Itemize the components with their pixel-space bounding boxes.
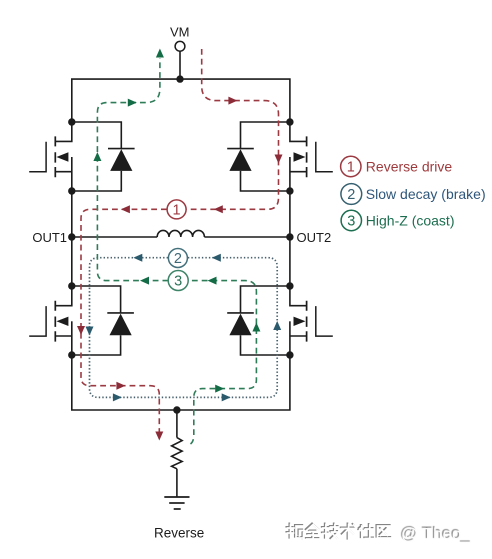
wire bottom rail [72, 355, 290, 410]
transistor Q4 bottom-right MOSFET [290, 286, 333, 355]
arrow green left on line 3 left [140, 277, 149, 285]
arrow blue right bottom right [222, 393, 231, 401]
arrow blue left on line 2 left [133, 254, 142, 262]
wire left edge mid [71, 191, 73, 286]
arrow blue left on line 2 right [212, 254, 221, 262]
legend item 2 circle [341, 184, 362, 205]
path 1 reverse drive (red dashed) [81, 49, 279, 433]
wire VM stub [179, 51, 181, 79]
svg-text:Reverse drive: Reverse drive [366, 158, 453, 174]
arrow green right top [128, 99, 137, 107]
diode D4 body diode of Q4 [227, 286, 290, 355]
wire OUT1-OUT2 line [72, 236, 290, 238]
transistor Q3 bottom-left MOSFET [29, 286, 72, 355]
svg-text:OUT1: OUT1 [32, 230, 67, 245]
resistor Rsense [172, 410, 183, 497]
node label circled 1 [167, 200, 186, 219]
wire top rail [72, 79, 290, 122]
diode D2 body diode of Q2 [227, 122, 290, 191]
node OUT2 [286, 233, 293, 240]
svg-text:OUT2: OUT2 [297, 230, 332, 245]
arrow green up near VM [156, 49, 164, 58]
path 3 high-Z coast (green dashed) [97, 58, 256, 444]
svg-text:3: 3 [347, 214, 355, 230]
transistor Q2 top-right MOSFET [290, 122, 333, 191]
arrow red left on line 1 right [214, 205, 223, 213]
arrow red down in Q3 loop [77, 326, 85, 335]
legend item 3 circle [341, 210, 361, 230]
node Q2 source [286, 187, 293, 194]
inductor motor winding [157, 230, 204, 237]
svg-text:2: 2 [347, 187, 355, 203]
diode D1 body diode of Q1 [72, 122, 135, 191]
arrow green up in Q4 loop [252, 323, 260, 332]
arrow red down at resistor [155, 432, 163, 441]
node label circled 2 [168, 249, 187, 268]
ground [164, 497, 189, 509]
diode D3 body diode of Q3 [72, 286, 134, 355]
svg-text:1: 1 [173, 203, 181, 219]
arrow red right top [228, 97, 237, 105]
arrow red down in Q2 loop [275, 155, 283, 164]
wire right edge mid [289, 191, 291, 286]
node Q4 source [286, 351, 293, 358]
node VM junction [176, 75, 183, 82]
arrow blue right bottom left [113, 393, 122, 401]
arrow green left on line 3 right [208, 277, 217, 285]
node Q3 source [68, 351, 75, 358]
node sense [173, 406, 180, 413]
arrow blue down in Q3 loop [86, 327, 94, 336]
arrow red right bottom [116, 382, 125, 390]
node label circled 3 [168, 271, 188, 291]
transistor Q1 top-left MOSFET [29, 122, 72, 191]
svg-text:@ Theo_: @ Theo_ [401, 525, 471, 544]
node Q4 drain [286, 282, 293, 289]
arrow red left on line 1 left [121, 205, 130, 213]
svg-text:High-Z (coast): High-Z (coast) [366, 212, 455, 228]
arrow green up in Q1 loop [93, 152, 101, 161]
node Q3 drain [68, 282, 75, 289]
svg-text:1: 1 [347, 160, 355, 176]
path 2 slow decay (blue dotted) [90, 258, 278, 398]
node Q1 drain [68, 118, 75, 125]
svg-text:3: 3 [174, 274, 182, 290]
svg-text:Reverse: Reverse [154, 526, 204, 541]
VM terminal circle [175, 41, 185, 51]
node OUT1 [68, 233, 75, 240]
node Q1 source [68, 187, 75, 194]
svg-text:2: 2 [174, 251, 182, 267]
svg-text:Slow decay (brake): Slow decay (brake) [366, 186, 486, 202]
legend item 1 circle [341, 156, 361, 176]
arrow green right bottom [215, 385, 224, 393]
arrow blue up in Q4 loop [273, 321, 281, 330]
svg-text:VM: VM [170, 25, 190, 40]
node Q2 drain [286, 118, 293, 125]
